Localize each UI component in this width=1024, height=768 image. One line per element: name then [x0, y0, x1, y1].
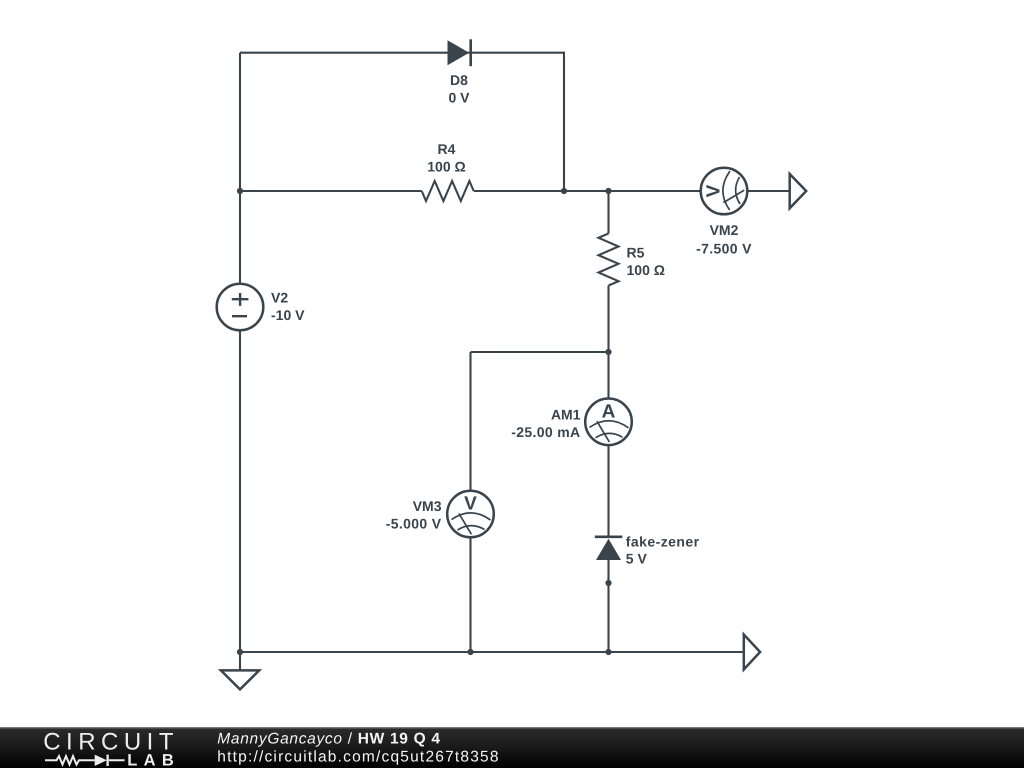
junction node middle y=191 x=608.5: [605, 188, 611, 194]
svg-text:5 V: 5 V: [626, 550, 648, 566]
svg-text:VM3: VM3: [413, 498, 442, 514]
label AM1 value -25.00 mA: [511, 406, 581, 440]
label R4 value 100 Ohm: [427, 141, 465, 175]
svg-text:100 Ω: 100 Ω: [627, 262, 665, 278]
svg-text:-5.000 V: -5.000 V: [386, 515, 442, 531]
output flag bottom right: [744, 635, 760, 670]
svg-text:LAB: LAB: [127, 752, 180, 768]
junction node middle y=191 x=564: [561, 188, 567, 194]
wire right vertical x=564 from diode loop to node B: [563, 52, 565, 191]
svg-text:AM1: AM1: [551, 406, 581, 422]
wire zener bottom lead: [607, 560, 609, 652]
CircuitLab logo resistor-diode squiggle: [45, 755, 125, 766]
svg-text:R5: R5: [627, 245, 645, 261]
label V2 value -10 V: [271, 290, 305, 324]
wire R5 bottom lead: [607, 286, 609, 353]
junction node middle-left: [237, 188, 243, 194]
svg-text:D8: D8: [450, 72, 468, 88]
ammeter AM1: [585, 399, 632, 446]
svg-text:R4: R4: [438, 141, 456, 157]
wire middle horizontal y=191 left lead: [240, 190, 422, 192]
wire R5 top lead: [607, 191, 609, 234]
ground: [221, 652, 259, 689]
voltmeter VM3: [447, 491, 494, 538]
diode D8: [448, 39, 471, 66]
wire left vertical x=240 top segment: [239, 53, 241, 284]
wire left vertical x=240 bottom segment: [239, 330, 241, 652]
voltage source V2: [217, 284, 264, 331]
label R5 value 100 Ohm: [627, 245, 665, 279]
wire middle horizontal y=191 right lead to voltmeter VM2: [474, 190, 701, 192]
svg-text:MannyGancayco / HW 19 Q 4: MannyGancayco / HW 19 Q 4: [217, 730, 440, 747]
wire top from node A to diode D8 anode and cathode to right branch: [240, 52, 564, 54]
diode fake-zener: [595, 537, 623, 560]
svg-text:-10 V: -10 V: [271, 307, 305, 323]
label VM2 value -7.500 V: [696, 222, 752, 256]
output flag right of VM2: [790, 174, 807, 208]
svg-text:0 V: 0 V: [448, 90, 470, 106]
resistor R4: [422, 181, 474, 201]
wire VM3 bottom lead: [469, 537, 471, 652]
junction node bottom x=470.5: [467, 649, 473, 655]
svg-text:V2: V2: [271, 290, 288, 306]
junction node y=352 x=608.5: [605, 349, 611, 355]
resistor R5: [599, 234, 619, 286]
label VM3 value -5.000 V: [386, 498, 442, 532]
svg-text:http://circuitlab.com/cq5ut267: http://circuitlab.com/cq5ut267t8358: [217, 749, 499, 766]
junction node bottom x=240: [237, 649, 243, 655]
wire from VM2 to output flag: [747, 190, 788, 192]
wire VM3 top lead x=470.5: [469, 352, 471, 491]
wire bottom horizontal y=652: [240, 651, 743, 653]
svg-text:fake-zener: fake-zener: [626, 533, 700, 549]
svg-text:100 Ω: 100 Ω: [427, 159, 465, 175]
svg-text:V: V: [464, 494, 477, 515]
svg-text:A: A: [602, 401, 616, 422]
svg-text:V: V: [704, 184, 725, 197]
label D8 value 0 V: [448, 72, 470, 106]
svg-text:-25.00 mA: -25.00 mA: [511, 424, 580, 440]
junction node bottom x=608.5: [605, 649, 611, 655]
label fake-zener value 5 V: [626, 533, 700, 566]
junction dot below zener: [605, 580, 611, 586]
voltmeter VM2 (rotated meter): [701, 168, 748, 215]
footer bar: [0, 727, 1024, 768]
wire AM1 top lead x=608.5: [607, 352, 609, 399]
wire middle-lower horizontal y=352: [471, 351, 609, 353]
wire AM1 bottom lead to zener: [607, 445, 609, 536]
svg-text:-7.500 V: -7.500 V: [696, 240, 752, 256]
svg-text:VM2: VM2: [710, 222, 739, 238]
